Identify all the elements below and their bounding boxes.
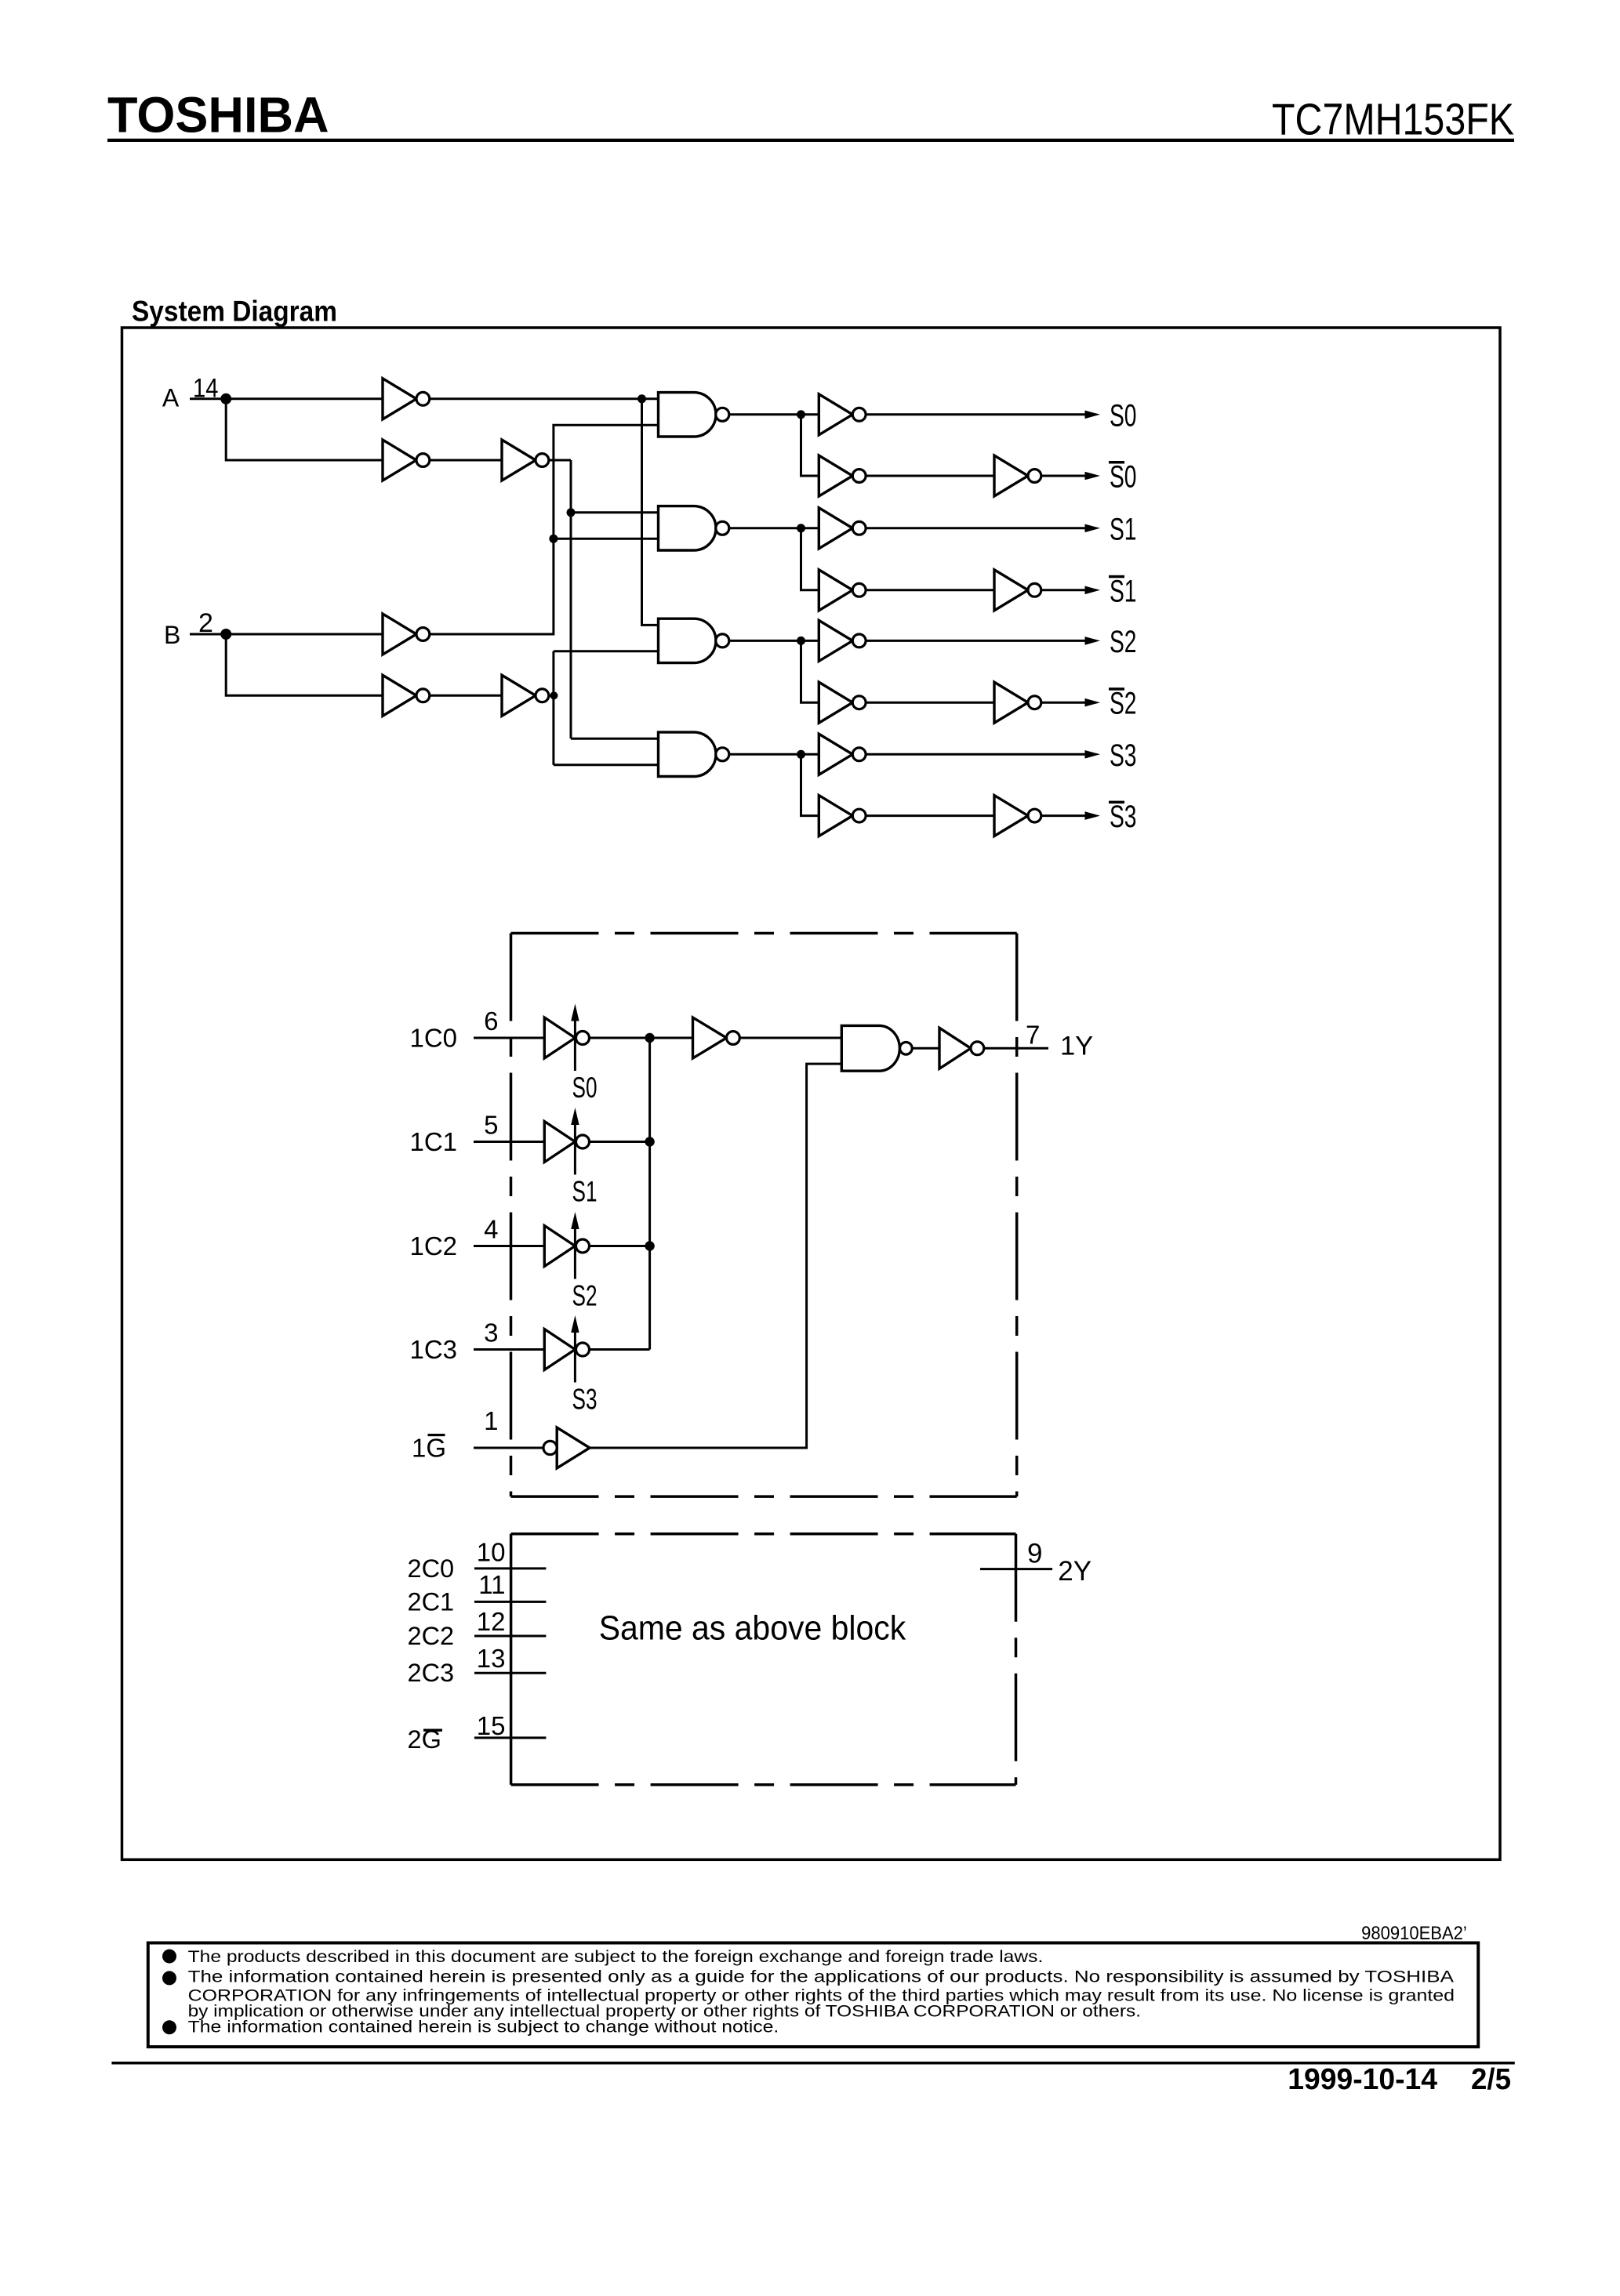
wire B input <box>190 633 383 636</box>
svg-text:A: A <box>162 383 180 412</box>
block 2 left border (solid) <box>510 1534 513 1785</box>
nand gate N5 (output gate) <box>841 1025 912 1071</box>
wire B branch down to buffer row <box>226 634 383 695</box>
svg-text:15: 15 <box>477 1711 506 1740</box>
svg-text:10: 10 <box>477 1538 506 1567</box>
wire S3-bar output line <box>1041 814 1086 817</box>
wire 2Y output <box>980 1568 1052 1570</box>
svg-text:1Y: 1Y <box>1060 1032 1093 1061</box>
date 1999-10-14 <box>1288 2063 1437 2096</box>
svg-text:S1: S1 <box>572 1176 598 1208</box>
wire A branch down to buffer row <box>226 399 383 460</box>
label S2-bar <box>1109 687 1137 721</box>
nand gate N2 (S1) <box>659 506 729 550</box>
wire B'' vertical bus <box>552 651 554 765</box>
svg-text:TOSHIBA: TOSHIBA <box>107 87 329 143</box>
block 2 dash-dot border <box>511 1534 1016 1785</box>
wire S1 output line <box>866 527 1086 529</box>
inverter U3 (A'') <box>502 440 549 481</box>
inverter U1 (A to A') <box>383 379 430 419</box>
buffer U2 (A first inverter row2) <box>383 440 430 481</box>
node B' branch to NAND N2 <box>549 535 558 543</box>
svg-text:9: 9 <box>1027 1538 1042 1569</box>
wire B'' into NAND N3 input <box>554 650 659 652</box>
pin 6 label <box>484 1007 498 1036</box>
arrow S0-bar <box>1085 472 1101 481</box>
pin 13 label <box>477 1644 506 1673</box>
svg-text:S0: S0 <box>1110 460 1137 495</box>
input B label <box>164 621 180 649</box>
node A input junction <box>220 394 231 404</box>
inverter U12 (S2-bar stage1) <box>819 682 866 723</box>
svg-text:980910EBA2’: 980910EBA2’ <box>1361 1923 1467 1944</box>
wire S1-bar middle <box>866 589 994 591</box>
header rule <box>107 139 1514 142</box>
inverter U8 (S0-bar stage1) <box>819 455 866 496</box>
wire 1C2 buffer output <box>590 1245 650 1247</box>
wire output bus vertical <box>648 1038 651 1350</box>
label select S1 <box>572 1176 598 1208</box>
wire 2C2 input stub <box>474 1635 546 1638</box>
pin 12 label <box>477 1607 506 1636</box>
nand gate N1 (S0) <box>659 393 729 437</box>
pin 3 label <box>484 1318 498 1347</box>
select arrow S3 <box>571 1315 579 1383</box>
svg-text:4: 4 <box>484 1215 498 1244</box>
svg-text:3: 3 <box>484 1318 498 1347</box>
svg-text:S2: S2 <box>1110 625 1137 659</box>
buffer U5 (B first inverter row2) <box>383 675 430 716</box>
label S0-bar <box>1109 460 1137 495</box>
wire A'' into NAND N2 input <box>571 511 659 513</box>
wire B' up to NAND N1 input <box>430 425 659 634</box>
svg-text:TC7MH153FK: TC7MH153FK <box>1272 94 1514 144</box>
label 1C1 <box>410 1127 458 1156</box>
arrow S3-bar <box>1085 811 1101 820</box>
select arrow S0 <box>571 1004 579 1072</box>
label S1-bar <box>1109 574 1137 608</box>
svg-text:S1: S1 <box>1110 574 1137 608</box>
wire A' down to NAND N3 input <box>642 399 659 626</box>
svg-text:2C1: 2C1 <box>408 1587 455 1616</box>
inverter U21 (1G, input bubble) <box>543 1427 590 1468</box>
label S3-bar <box>1109 800 1137 834</box>
svg-text:1C0: 1C0 <box>410 1023 458 1052</box>
wire S3 output line <box>866 753 1086 756</box>
wire A' to NAND N1 input <box>430 397 659 400</box>
label 1C2 <box>410 1231 458 1260</box>
svg-text:2C0: 2C0 <box>408 1554 455 1583</box>
svg-text:12: 12 <box>477 1607 506 1636</box>
bullet 1 <box>162 1950 176 1964</box>
wire S1-bar output line <box>1041 589 1086 591</box>
svg-text:B: B <box>164 621 180 649</box>
tri-state buffer B2 (1C1) <box>544 1122 589 1163</box>
svg-text:The products described in this: The products described in this document … <box>188 1948 1044 1966</box>
wire N2 output <box>729 527 819 529</box>
svg-text:2Y: 2Y <box>1058 1556 1092 1587</box>
wire 2C3 input stub <box>474 1672 546 1674</box>
wire 2C0 input stub <box>474 1567 546 1569</box>
wire S0 output line <box>866 413 1086 415</box>
node B input junction <box>220 629 231 640</box>
wire S3-bar middle <box>866 814 994 817</box>
label 2Y <box>1058 1556 1092 1587</box>
notice box <box>148 1943 1478 2048</box>
svg-text:2/5: 2/5 <box>1471 2063 1511 2096</box>
wire 1G to NAND N5 input <box>590 1064 841 1448</box>
svg-text:11: 11 <box>478 1570 505 1599</box>
wire S3 down to inverted branch <box>801 754 819 815</box>
bullet 2 <box>162 1971 176 1985</box>
svg-text:2C3: 2C3 <box>408 1659 455 1687</box>
inverter U17 (S2-bar stage2) <box>994 682 1041 723</box>
svg-text:1C1: 1C1 <box>410 1127 458 1156</box>
svg-text:6: 6 <box>484 1007 498 1036</box>
node S0 branch <box>797 410 805 419</box>
document number 980910EBA2' <box>1361 1923 1467 1944</box>
tri-state buffer B4 (1C3) <box>544 1329 589 1370</box>
wire 1G input stub <box>474 1447 543 1449</box>
svg-text:The information contained here: The information contained herein is subj… <box>188 2019 779 2037</box>
nand gate N3 (S2) <box>659 618 729 662</box>
pin 1 label <box>484 1406 498 1435</box>
svg-text:S3: S3 <box>1110 800 1137 834</box>
wire 1C0 buffer output <box>590 1037 693 1039</box>
page 2/5 <box>1471 2063 1511 2096</box>
notice line 2 <box>188 1968 1454 1986</box>
wire S0 down to inverted branch <box>801 415 819 476</box>
wire 1C3 input stub <box>474 1348 544 1351</box>
wire N3 output <box>729 640 819 642</box>
wire S1 down to inverted branch <box>801 528 819 590</box>
wire S2-bar middle <box>866 702 994 704</box>
svg-text:5: 5 <box>484 1111 498 1140</box>
part number TC7MH153FK <box>1272 94 1514 144</box>
inverter U15 (S0-bar stage2) <box>994 455 1041 496</box>
label 2C1 <box>408 1587 455 1616</box>
inverter U7 (S0 output) <box>819 394 866 435</box>
label 1Y <box>1060 1032 1093 1061</box>
node A' branch <box>637 394 646 403</box>
arrow S2-bar <box>1085 698 1101 707</box>
wire N1 output <box>729 413 819 415</box>
wire U19 to NAND N5 <box>739 1037 841 1039</box>
label Same as above block <box>599 1609 906 1648</box>
svg-text:S0: S0 <box>572 1072 598 1104</box>
arrow S2 <box>1085 637 1101 645</box>
node S2 branch <box>797 637 805 645</box>
wire A'' to vertical bus <box>549 459 571 462</box>
inverter U13 (S3 output) <box>819 734 866 774</box>
wire A input <box>190 397 383 400</box>
svg-text:1: 1 <box>484 1406 498 1435</box>
notice line 3 <box>188 1986 1455 2004</box>
node bus 1C2 <box>645 1241 654 1250</box>
inverter U18 (S3-bar stage2) <box>994 796 1041 836</box>
label select S2 <box>572 1280 598 1312</box>
wire 2G input stub <box>474 1736 546 1739</box>
arrow S0 <box>1085 411 1101 419</box>
pin 10 label <box>477 1538 506 1567</box>
wire S0-bar middle <box>866 475 994 477</box>
inverter U14 (S3-bar stage1) <box>819 796 866 836</box>
wire S0-bar output line <box>1041 475 1086 477</box>
svg-text:1C2: 1C2 <box>410 1231 458 1260</box>
wire N5 output <box>912 1047 939 1050</box>
inverter U9 (S1 output) <box>819 508 866 549</box>
input A label <box>162 383 180 412</box>
svg-text:1G: 1G <box>412 1433 446 1462</box>
inverter U20 (1Y driver) <box>939 1028 984 1068</box>
inverter U19 (mux internal) <box>693 1017 740 1058</box>
schematic border box <box>122 328 1501 1859</box>
wire B'' stub <box>549 695 555 697</box>
label 2C0 <box>408 1554 455 1583</box>
svg-text:The information contained here: The information contained herein is pres… <box>188 1968 1454 1986</box>
pin 4 label <box>484 1215 498 1244</box>
svg-text:2C2: 2C2 <box>408 1622 455 1650</box>
inverter U4 (B to B') <box>383 614 430 655</box>
label 1C0 <box>410 1023 458 1052</box>
label S1 <box>1110 512 1137 546</box>
select arrow S1 <box>571 1108 579 1175</box>
node S3 branch <box>797 750 805 759</box>
svg-text:13: 13 <box>477 1644 506 1673</box>
wire B' into NAND N2 input <box>554 538 659 540</box>
svg-text:S0: S0 <box>1110 398 1137 433</box>
pin 14 label <box>193 374 218 404</box>
notice line 4 <box>188 2003 1141 2021</box>
TOSHIBA logo <box>107 87 329 143</box>
label select S0 <box>572 1072 598 1104</box>
pin 11 label <box>478 1570 505 1599</box>
label 1G-bar <box>412 1433 446 1462</box>
node B'' junction <box>550 691 558 699</box>
svg-text:System Diagram: System Diagram <box>132 296 337 328</box>
notice line 5 <box>188 2019 779 2037</box>
svg-text:S3: S3 <box>1110 738 1137 773</box>
node A'' branch to NAND N2 <box>567 508 576 517</box>
title System Diagram <box>132 296 337 328</box>
node bus 1C1 <box>645 1137 654 1146</box>
tri-state buffer B3 (1C2) <box>544 1226 589 1267</box>
node bus 1C0 <box>645 1033 654 1043</box>
wire S2-bar output line <box>1041 702 1086 704</box>
svg-text:1C3: 1C3 <box>410 1335 458 1364</box>
label 1C3 <box>410 1335 458 1364</box>
wire 1C1 buffer output <box>590 1141 650 1143</box>
wire 1Y output <box>984 1047 1048 1050</box>
label S3 <box>1110 738 1137 773</box>
wire S2 output line <box>866 640 1086 642</box>
inverter U6 (B'') <box>502 675 549 716</box>
wire N4 output <box>729 753 819 756</box>
bullet 3 <box>162 2020 176 2034</box>
arrow S1 <box>1085 524 1101 533</box>
wire A'' vertical bus <box>570 460 572 738</box>
wire A'' into NAND N4 input <box>571 738 659 740</box>
pin 9 label <box>1027 1538 1042 1569</box>
label 2C3 <box>408 1659 455 1687</box>
nand gate N4 (S3) <box>659 732 729 776</box>
node S1 branch <box>797 524 805 532</box>
arrow S3 <box>1085 750 1101 759</box>
tri-state buffer B1 (1C0) <box>544 1017 589 1058</box>
wire U5 to U6 <box>430 695 502 697</box>
label select S3 <box>572 1384 598 1416</box>
svg-text:Same as above block: Same as above block <box>599 1609 906 1648</box>
svg-text:S3: S3 <box>572 1384 598 1416</box>
wire B'' into NAND N4 input <box>554 764 659 766</box>
label S2 <box>1110 625 1137 659</box>
wire 1C2 input stub <box>474 1245 544 1247</box>
label 2G <box>408 1725 443 1754</box>
notice line 1 <box>188 1948 1044 1966</box>
wire 2C1 input stub <box>474 1601 546 1603</box>
wire 1C1 input stub <box>474 1141 544 1143</box>
pin 5 label <box>484 1111 498 1140</box>
svg-text:1999-10-14: 1999-10-14 <box>1288 2063 1437 2096</box>
wire 1C0 input stub <box>474 1037 544 1039</box>
select arrow S2 <box>571 1212 579 1279</box>
pin 7 label <box>1026 1021 1040 1050</box>
svg-text:S2: S2 <box>1110 687 1137 721</box>
wire U2 to U3 <box>430 459 502 462</box>
pin 15 label <box>477 1711 506 1740</box>
svg-text:S1: S1 <box>1110 512 1137 546</box>
inverter U10 (S1-bar stage1) <box>819 570 866 611</box>
label S0 <box>1110 398 1137 433</box>
inverter U11 (S2 output) <box>819 620 866 661</box>
svg-text:S2: S2 <box>572 1280 598 1312</box>
label 2C2 <box>408 1622 455 1650</box>
pin 2 label <box>198 608 213 638</box>
wire 1C3 buffer output <box>590 1348 650 1351</box>
wire S2 down to inverted branch <box>801 640 819 702</box>
block 1 dash-dot border <box>511 934 1017 1497</box>
svg-text:7: 7 <box>1026 1021 1040 1050</box>
footer rule <box>111 2062 1514 2065</box>
arrow S1-bar <box>1085 586 1101 595</box>
inverter U16 (S1-bar stage2) <box>994 570 1041 611</box>
